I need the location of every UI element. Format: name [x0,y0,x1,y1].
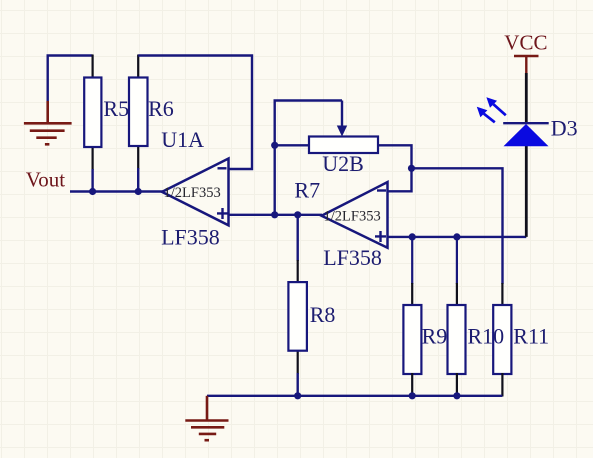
wire U2B right terminal to node [378,145,412,191]
op-amp U1A plus sign [217,208,228,219]
resistor R6 [129,78,148,147]
op-amp U2 plus sign [375,231,386,242]
node R5/Vout junction [89,188,96,195]
op-amp U2 [322,182,388,248]
node U2B left terminal junction [271,142,278,149]
svg-text:Vout: Vout [26,168,65,192]
wire U2B left terminal [275,144,309,146]
node R9 bottom junction [409,392,416,399]
power VCC bar [514,55,539,58]
wire pot wiper arrow stem [341,101,343,128]
wire feedback R6 top to U1A inverting input [138,56,252,170]
node R9 top junction [409,233,416,240]
op-amp U2 minus sign [377,189,386,191]
svg-text:LF358: LF358 [161,225,220,250]
svg-text:U1A: U1A [161,127,204,152]
node R6/Vout junction [135,188,142,195]
svg-text:1/2LF353: 1/2LF353 [324,209,381,225]
svg-text:R11: R11 [513,324,549,349]
wire U1A plus input to U2 output [229,214,323,216]
resistor R5 [84,78,101,148]
resistor R6 pin bottom [137,145,139,169]
svg-text:R8: R8 [310,302,336,327]
svg-text:1/2LF353: 1/2LF353 [164,185,221,201]
ground GND2 [185,396,228,440]
op-amp U1A [162,159,229,226]
node feedback junction [408,165,415,172]
LED D3 emission arrow 1 [486,97,497,108]
resistor R9 [403,305,421,374]
wire ground rail [207,395,502,397]
svg-text:R7: R7 [294,177,320,202]
ground GND1 [24,101,72,144]
wire R6 bottom to node [137,168,139,192]
LED D3 pin bottom [525,146,528,237]
resistor R9 pin top [411,283,413,306]
resistor R5 pin top [91,55,93,79]
wire feedback node to R11 top [412,168,503,284]
resistor R6 pin top [137,55,139,79]
resistor R11 pin bottom [501,373,503,397]
wire VCC stem [525,56,527,74]
resistor R11 pin top [501,283,503,306]
wire R5 bottom to node [91,169,93,192]
LED D3 emission arrow 2 [477,107,488,118]
wire R10 top branch [456,237,458,284]
svg-text:R9: R9 [422,324,448,349]
LED D3 pin top [525,73,528,123]
svg-text:D3: D3 [551,116,578,141]
resistor R10 pin bottom [456,373,458,397]
wire vertical branch up to pot wiper [275,101,342,215]
wire R8 top branch [297,215,299,261]
node U2B-left branch junction [271,211,278,218]
wire Vout net to U1A output [70,190,163,192]
wire from ground GND1 to R5 top [48,56,93,103]
potentiometer U2B [309,137,378,154]
node R10 bottom junction [453,392,460,399]
svg-text:R5: R5 [103,96,129,121]
op-amp U1A minus sign [218,167,227,169]
wire R8 bottom to ground rail [297,373,299,396]
wire U2 plus input rail to LED [388,236,527,238]
svg-text:R10: R10 [468,324,505,349]
pot wiper arrowhead [337,126,347,137]
resistor R8 pin bottom [297,350,299,374]
wire R9 top branch [411,237,413,284]
node R8 bottom junction [294,392,301,399]
resistor R10 [448,305,466,374]
LED D3 triangle [504,124,549,146]
resistor R5 pin bottom [91,146,93,170]
resistor R11 [493,305,511,374]
svg-text:R6: R6 [148,96,174,121]
svg-text:VCC: VCC [504,31,547,55]
node R8 branch junction [294,211,301,218]
resistor R8 pin top [297,260,299,283]
svg-text:U2B: U2B [322,151,364,176]
resistor R9 pin bottom [411,373,413,397]
LED D3 cathode bar [503,122,549,124]
node R10 top junction [453,233,460,240]
svg-text:LF358: LF358 [323,245,382,270]
resistor R8 [288,282,307,351]
resistor R10 pin top [456,283,458,306]
